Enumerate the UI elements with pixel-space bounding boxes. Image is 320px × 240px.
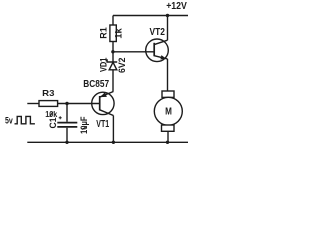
slash of 0 in 10k	[50, 112, 53, 117]
wire VT2 emitter to motor	[167, 59, 169, 91]
wire VD1 anode to VT1 emitter	[112, 70, 114, 92]
motor M1 bottom brush	[162, 125, 175, 131]
wire R3 to VT1 base	[58, 103, 100, 105]
svg-text:1k: 1k	[114, 27, 124, 39]
transistor VT1 base bar	[99, 96, 101, 111]
transistor VT1 emitter slant	[100, 92, 113, 97]
wire input to R3	[27, 103, 39, 105]
svg-text:BC857: BC857	[83, 79, 109, 90]
diode VD1 zener cathode bar	[107, 59, 117, 62]
transistor VT2 base bar	[153, 43, 155, 57]
wire +12V top rail	[113, 15, 188, 17]
wire C1 top lead	[66, 104, 68, 122]
svg-text:5v: 5v	[5, 115, 13, 125]
wire ground rail	[27, 141, 188, 143]
wire VD1 top lead	[112, 52, 114, 62]
svg-text:R3: R3	[42, 89, 55, 98]
junction dot VT1 collector/ground rail	[112, 141, 115, 144]
input square wave symbol	[15, 116, 35, 123]
wire R1 bottom lead	[112, 42, 114, 53]
junction dot motor/ground rail	[166, 141, 169, 144]
transistor VT2 emitter slant	[154, 56, 167, 59]
wire R1 top lead	[112, 16, 114, 26]
motor M1 top brush	[162, 91, 174, 97]
svg-text:+12V: +12V	[166, 1, 187, 12]
slash of 0 in 10uF	[82, 126, 87, 129]
junction dot R1/VD1/VT2 base	[111, 50, 114, 53]
transistor VT2 collector slant	[154, 40, 167, 44]
svg-text:6V2: 6V2	[117, 58, 127, 73]
svg-text:10µF: 10µF	[79, 116, 89, 134]
transistor VT1 collector slant	[100, 110, 114, 116]
transistor VT2 circle	[146, 39, 169, 62]
junction dot C1/ground rail	[65, 141, 68, 144]
svg-text:C1: C1	[48, 118, 58, 129]
transistor VT2 emitter arrow (NPN)	[160, 55, 166, 59]
svg-text:VD1: VD1	[99, 58, 109, 73]
transistor VT1 emitter arrow (PNP)	[100, 92, 107, 97]
transistor VT1 circle	[92, 92, 114, 114]
wire VT2 collector lead	[167, 16, 169, 41]
svg-text:R1: R1	[99, 27, 109, 39]
motor M1 circle	[154, 97, 182, 125]
svg-text:VT1: VT1	[96, 119, 109, 130]
junction dot R3/C1	[65, 102, 68, 105]
svg-text:VT2: VT2	[150, 27, 166, 38]
capacitor C1 plus sign	[59, 116, 62, 119]
wire VT1 collector lead	[112, 116, 114, 143]
diode VD1 triangle	[109, 62, 117, 70]
wire motor bottom lead	[167, 131, 169, 142]
resistor R1	[110, 25, 116, 42]
svg-text:M: M	[165, 107, 172, 118]
capacitor C1 top plate	[57, 122, 77, 124]
capacitor C1 bottom plate	[57, 126, 77, 128]
wire base of VT2	[113, 51, 154, 53]
resistor R3	[39, 101, 58, 107]
wire C1 bottom lead	[66, 128, 68, 143]
junction dot top rail / VT2 collector	[166, 14, 169, 17]
